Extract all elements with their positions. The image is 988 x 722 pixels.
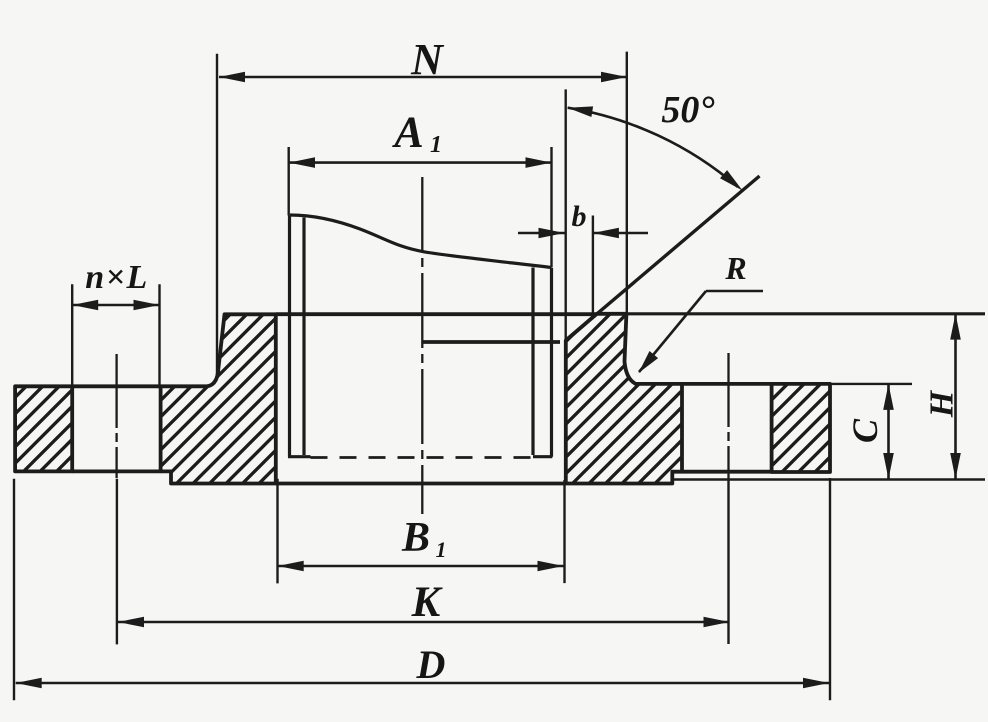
svg-text:1: 1 [436,537,447,562]
svg-text:R: R [724,250,746,286]
svg-text:1: 1 [430,132,442,158]
svg-text:B: B [401,515,430,561]
svg-text:50°: 50° [661,89,714,131]
svg-text:H: H [924,389,961,418]
svg-text:D: D [416,642,446,687]
svg-text:b: b [572,200,587,233]
svg-text:C: C [845,418,885,443]
svg-text:N: N [410,35,445,84]
svg-text:A: A [391,108,423,157]
svg-text:K: K [411,579,444,626]
svg-text:n×L: n×L [85,259,149,296]
